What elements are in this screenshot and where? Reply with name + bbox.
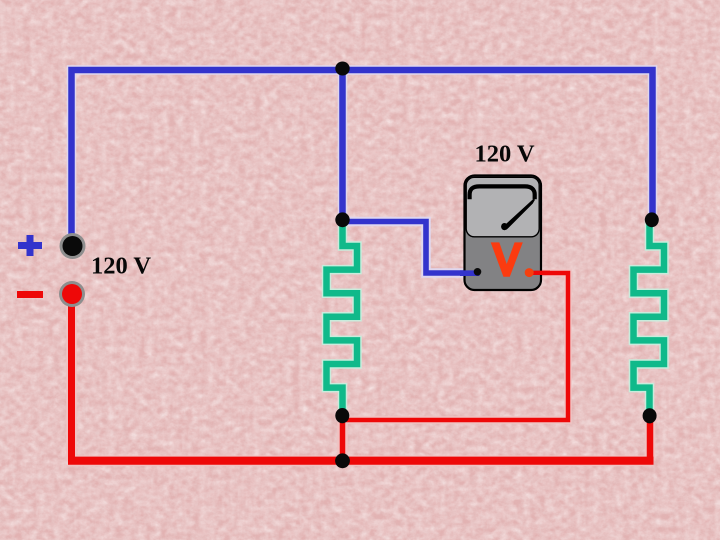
svg-text:120 V: 120 V <box>475 141 535 168</box>
svg-text:120 V: 120 V <box>91 252 151 279</box>
